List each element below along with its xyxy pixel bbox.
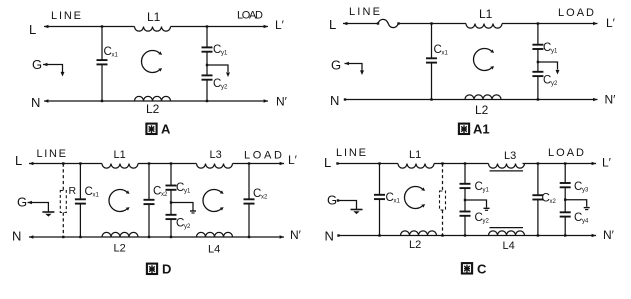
svg-text:LINE: LINE xyxy=(37,148,67,160)
fuse squiggle xyxy=(378,19,398,27)
ground arrow of Cy junction xyxy=(207,65,228,72)
inductor L1 xyxy=(398,164,434,169)
wire top right xyxy=(502,23,598,25)
svg-text:x1: x1 xyxy=(394,199,401,205)
svg-text:D: D xyxy=(162,262,171,277)
svg-text:L1: L1 xyxy=(409,149,421,161)
svg-text:A: A xyxy=(161,122,171,137)
capacitor Cy1 xyxy=(464,164,466,184)
mini ground branch xyxy=(171,203,193,211)
svg-text:LOAD: LOAD xyxy=(237,10,263,22)
inductor L3 xyxy=(489,164,525,169)
svg-text:LOAD: LOAD xyxy=(548,147,584,159)
svg-text:G: G xyxy=(32,57,42,72)
resistor R dashed xyxy=(62,164,64,191)
svg-text:L2: L2 xyxy=(114,243,126,255)
wire between Cy1 Cy2 xyxy=(206,52,208,76)
inductor L2 xyxy=(465,95,501,100)
ground xyxy=(351,210,363,215)
svg-text:y1: y1 xyxy=(483,188,490,194)
capacitor Cy1 xyxy=(206,27,208,48)
ground pigtail of G xyxy=(345,64,363,71)
svg-text:y2: y2 xyxy=(221,85,228,91)
svg-text:L4: L4 xyxy=(208,244,220,256)
svg-text:N′: N′ xyxy=(276,95,288,109)
svg-text:LINE: LINE xyxy=(349,6,380,18)
mini ground branch xyxy=(565,200,587,207)
svg-text:x1: x1 xyxy=(442,51,449,57)
svg-text:N′: N′ xyxy=(603,228,615,242)
svg-text:y1: y1 xyxy=(551,49,558,55)
svg-text:y2: y2 xyxy=(483,219,490,225)
svg-text:R: R xyxy=(69,185,77,197)
inductor L1 xyxy=(102,164,138,169)
inductor L4 xyxy=(489,231,525,236)
wire L top xyxy=(44,26,135,28)
wire top right xyxy=(233,163,285,165)
node dots fig A1 xyxy=(430,22,432,24)
caption 图 A1 xyxy=(459,124,469,135)
svg-text:N′: N′ xyxy=(290,228,302,242)
inductor L2 xyxy=(102,232,138,237)
capacitor Cy3 xyxy=(564,164,566,183)
svg-text:L: L xyxy=(15,153,22,168)
capacitor Cx2 right xyxy=(248,164,250,200)
capacitor Cx1 xyxy=(379,164,381,195)
terminal arrow at L xyxy=(44,25,48,28)
capacitor Cx1 xyxy=(431,24,433,59)
svg-text:C: C xyxy=(477,262,487,277)
svg-text:N: N xyxy=(330,93,339,108)
capacitor Cy2 xyxy=(202,75,213,79)
svg-text:y1: y1 xyxy=(221,51,228,57)
ground pigtail of G xyxy=(43,65,63,73)
svg-text:y2: y2 xyxy=(184,224,191,230)
svg-text:LOAD: LOAD xyxy=(244,150,282,162)
svg-text:L3: L3 xyxy=(210,149,222,161)
svg-text:G: G xyxy=(331,58,341,73)
wire N bottom xyxy=(345,99,598,101)
svg-text:x2: x2 xyxy=(550,199,557,205)
svg-text:LINE: LINE xyxy=(51,10,81,22)
inductor L4 xyxy=(197,232,233,237)
node dots fig A xyxy=(101,25,103,27)
svg-text:L′: L′ xyxy=(275,18,285,32)
mini ground branch xyxy=(465,200,487,208)
wire N bottom xyxy=(44,100,268,102)
svg-text:L′: L′ xyxy=(606,16,616,30)
resistor dashed xyxy=(442,164,444,192)
svg-text:L′: L′ xyxy=(288,153,298,167)
svg-text:N: N xyxy=(325,229,334,244)
svg-text:L: L xyxy=(324,155,331,170)
terminal arrow at L' xyxy=(264,25,268,28)
svg-text:x2: x2 xyxy=(161,192,168,198)
wire N bottom xyxy=(338,235,596,237)
inductor L1 xyxy=(135,27,171,32)
svg-text:G: G xyxy=(17,195,27,210)
svg-text:G: G xyxy=(327,193,337,208)
svg-text:N: N xyxy=(31,95,40,110)
svg-text:y1: y1 xyxy=(184,189,191,195)
svg-text:N′: N′ xyxy=(605,93,617,107)
inductor L1 xyxy=(466,24,502,29)
wire between Cy caps xyxy=(537,49,539,72)
node dots fig D xyxy=(62,162,64,164)
svg-text:x1: x1 xyxy=(112,53,119,59)
svg-text:L: L xyxy=(329,17,336,32)
wire top right xyxy=(523,163,597,165)
ground lead of G xyxy=(28,203,49,212)
capacitor Cy1 xyxy=(170,164,172,186)
wire mid top xyxy=(138,163,197,165)
svg-text:x2: x2 xyxy=(261,195,268,201)
svg-text:y3: y3 xyxy=(582,188,589,194)
capacitor Cy2 xyxy=(532,72,543,76)
capacitor Cy1 xyxy=(537,24,539,45)
svg-text:L2: L2 xyxy=(409,239,421,251)
ground lead of G xyxy=(338,201,357,210)
svg-text:L4: L4 xyxy=(503,240,515,252)
caption 图 C xyxy=(462,263,472,274)
capacitor Cy2 xyxy=(460,212,471,216)
svg-text:L2: L2 xyxy=(475,103,489,117)
ground arrow of Cy junction xyxy=(538,62,558,70)
svg-text:L: L xyxy=(29,22,36,37)
caption 图 A xyxy=(146,124,156,135)
svg-text:L′: L′ xyxy=(602,156,612,170)
capacitor Cx1 xyxy=(79,164,81,200)
svg-text:y4: y4 xyxy=(582,219,589,225)
flux circle xyxy=(474,49,495,71)
svg-text:LINE: LINE xyxy=(336,147,366,159)
svg-text:y2: y2 xyxy=(551,81,558,87)
svg-text:L3: L3 xyxy=(504,150,516,162)
wire L to fuse xyxy=(343,23,378,25)
inductor L3 xyxy=(197,164,233,169)
flux circle 1 xyxy=(109,190,130,212)
caption 图 D xyxy=(147,264,157,275)
inductor L2 xyxy=(135,96,171,101)
capacitor Cx1 xyxy=(101,27,103,61)
wire fuse to L1 xyxy=(399,23,467,25)
inductor L2 xyxy=(401,231,437,236)
svg-text:L1: L1 xyxy=(147,10,161,24)
wire L top xyxy=(29,163,102,165)
svg-text:L2: L2 xyxy=(146,102,160,116)
capacitor Cy4 xyxy=(560,212,571,216)
flux circle xyxy=(142,51,163,73)
core bar L3 xyxy=(490,170,524,172)
wire top right xyxy=(171,26,269,28)
svg-text:x1: x1 xyxy=(93,193,100,199)
svg-text:L1: L1 xyxy=(114,149,126,161)
ground xyxy=(42,212,54,217)
wire L top xyxy=(337,163,398,165)
flux circle 2 xyxy=(203,190,224,212)
capacitor Cy2 xyxy=(166,215,177,219)
core bar L4 xyxy=(490,227,524,229)
svg-text:L1: L1 xyxy=(479,7,493,21)
svg-text:N: N xyxy=(12,229,21,244)
wire mid top xyxy=(434,163,489,165)
wire N bottom xyxy=(29,236,284,238)
node dots fig C xyxy=(378,162,380,164)
capacitor Cx2 xyxy=(537,164,539,196)
capacitor Cx2 mid xyxy=(148,164,150,200)
svg-text:LOAD: LOAD xyxy=(558,7,594,19)
flux circle xyxy=(405,187,426,209)
svg-text:A1: A1 xyxy=(473,122,490,137)
